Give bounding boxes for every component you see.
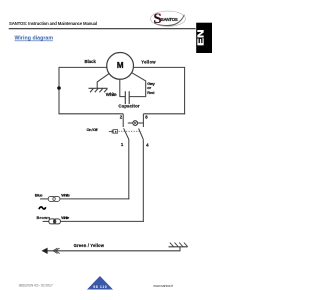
svg-text:98110 EN 4.5 - 02 2017: 98110 EN 4.5 - 02 2017 — [19, 283, 53, 287]
svg-text:www.santos.fr: www.santos.fr — [153, 284, 174, 288]
svg-text:On / Off: On / Off — [86, 127, 98, 132]
svg-text:White: White — [61, 215, 70, 220]
svg-text:EN: EN — [196, 30, 206, 46]
svg-text:Black: Black — [85, 59, 97, 64]
svg-text:98 110: 98 110 — [93, 285, 107, 289]
svg-text:Brown: Brown — [36, 215, 50, 220]
svg-text:Red: Red — [147, 90, 155, 95]
svg-text:Green / Yellow: Green / Yellow — [74, 243, 105, 248]
svg-text:SANTOS: SANTOS — [161, 17, 178, 22]
svg-text:SANTOS: Instruction and Mainte: SANTOS: Instruction and Maintenance Manu… — [9, 21, 97, 26]
svg-text:White: White — [106, 92, 117, 97]
svg-text:M: M — [117, 61, 124, 70]
svg-text:Wiring diagram: Wiring diagram — [15, 35, 54, 41]
svg-text:Yellow: Yellow — [141, 60, 156, 65]
svg-text:White: White — [61, 193, 70, 198]
svg-text:Capacitor: Capacitor — [118, 103, 140, 108]
svg-text:Blue: Blue — [35, 192, 44, 197]
